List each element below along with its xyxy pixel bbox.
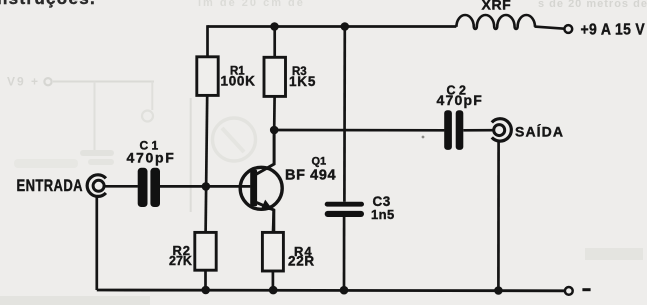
wire R4 bottom stem xyxy=(272,271,275,290)
wire top rail left xyxy=(208,25,457,28)
terminal SAIDA inner pin xyxy=(494,125,505,136)
ghost blob left-mid xyxy=(14,159,78,168)
capacitor C2 xyxy=(444,110,463,150)
wire R1 bottom to R2 top xyxy=(206,95,208,232)
wire SAIDA ground stem xyxy=(497,141,500,290)
svg-text:+9 A 15 V: +9 A 15 V xyxy=(581,22,646,39)
resistor R4 xyxy=(262,232,283,271)
node top rail / R3 xyxy=(270,22,279,31)
wire C3 column upper xyxy=(343,27,346,202)
svg-text:V9 +: V9 + xyxy=(7,75,40,89)
transistor Q1 collector lead xyxy=(256,130,274,175)
ghost circle small xyxy=(142,111,153,122)
svg-text:100K: 100K xyxy=(221,73,256,88)
node C3 column / top rail xyxy=(341,22,350,31)
ghost wire vertical a xyxy=(94,82,96,151)
node C3 / ground xyxy=(340,286,349,295)
svg-text:ENTRADA: ENTRADA xyxy=(17,178,83,196)
node collector junction xyxy=(270,126,279,135)
ghost blob cluster b xyxy=(88,159,114,165)
svg-text:27K: 27K xyxy=(169,254,192,268)
wire bottom ground rail xyxy=(97,289,565,293)
wire C2 to SAIDA xyxy=(463,129,494,132)
svg-text:nstruções.: nstruções. xyxy=(0,0,96,8)
ghost blob lower-left xyxy=(0,296,150,305)
terminal ENTRADA inner pin xyxy=(93,180,104,191)
terminal ENTRADA outer shield xyxy=(87,175,106,197)
svg-text:im de 20 cm de: im de 20 cm de xyxy=(198,0,305,9)
ghost blob cluster a xyxy=(80,150,114,156)
wire top rail to +V terminal xyxy=(535,27,565,29)
svg-text:470pF: 470pF xyxy=(127,150,176,166)
terminal +V xyxy=(564,25,572,33)
wire emitter to R4 xyxy=(272,210,275,232)
ghost terminal circle left xyxy=(44,78,51,85)
wire C3 column lower xyxy=(343,217,346,290)
wire ENTRADA ground stem xyxy=(95,196,98,290)
node R4 / ground xyxy=(269,286,278,295)
node R2 / ground xyxy=(201,286,210,295)
wire collector line to C2 xyxy=(274,129,444,132)
node SAIDA shield / ground xyxy=(494,286,503,295)
wire R3 bottom to collector node xyxy=(273,96,276,130)
svg-text:s de 20 metros de fio: s de 20 metros de fio xyxy=(538,0,647,10)
svg-text:SAÍDA: SAÍDA xyxy=(515,124,564,140)
capacitor C3 xyxy=(325,202,364,217)
wire R2 bottom stem xyxy=(204,270,207,290)
transistor Q1 base bar xyxy=(250,170,257,206)
wire R1 top stem xyxy=(206,25,209,57)
transistor Q1 emitter arrow xyxy=(261,200,273,211)
transistor Q1 emitter lead xyxy=(257,203,274,233)
resistor R1 xyxy=(197,57,218,96)
ghost chord xyxy=(222,128,244,152)
svg-text:470pF: 470pF xyxy=(437,92,483,108)
terminal SAIDA outer shield xyxy=(492,119,512,141)
svg-text:BF 494: BF 494 xyxy=(285,168,336,184)
svg-text:1K5: 1K5 xyxy=(289,74,316,89)
transistor Q1 body xyxy=(240,167,282,209)
resistor R2 xyxy=(195,232,216,270)
svg-text:Q1: Q1 xyxy=(312,155,327,167)
inductor XRF xyxy=(456,15,535,29)
wire ENTRADA to C1 xyxy=(104,185,138,188)
wire C1 to base xyxy=(160,185,250,188)
ghost vertical line xyxy=(190,98,192,212)
node base / R1R2 divider xyxy=(202,182,211,191)
label minus sign xyxy=(582,288,590,291)
svg-text:22R: 22R xyxy=(288,254,315,269)
wire R3 top stem xyxy=(273,25,276,57)
ghost transistor circle xyxy=(213,118,256,161)
ghost wire vertical b xyxy=(151,82,153,111)
svg-text:1n5: 1n5 xyxy=(371,207,395,222)
resistor R3 xyxy=(264,57,286,96)
speck xyxy=(422,136,425,139)
terminal minus xyxy=(565,287,573,295)
capacitor C1 xyxy=(138,168,160,207)
svg-text:XRF: XRF xyxy=(482,0,512,13)
ghost blob right-low xyxy=(585,248,643,260)
ghost wire horizontal xyxy=(53,81,154,83)
